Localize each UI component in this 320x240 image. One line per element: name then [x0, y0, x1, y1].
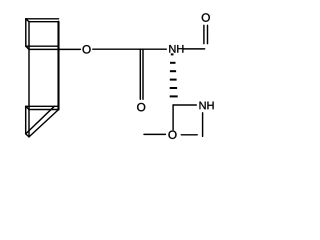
cage front-square bottom edge and bond to O	[29, 48, 80, 50]
triangle back hypotenuse	[26, 106, 55, 134]
triangle back left edge	[25, 106, 27, 134]
ring left edge	[172, 105, 174, 130]
methyl bond to ring O	[144, 133, 165, 135]
ring NH label	[200, 102, 214, 110]
cage front-left long edge	[28, 22, 30, 137]
cage corner edge top-left	[26, 19, 29, 22]
bond O to carbamate C	[93, 48, 141, 50]
ring bottom edge	[181, 134, 197, 136]
triangle front top edge	[29, 109, 59, 111]
formyl O label	[202, 13, 210, 21]
cage corner edge bottom-left	[26, 46, 29, 49]
formyl C=O double bond line 2	[203, 25, 205, 43]
bond NH to formyl C	[184, 48, 205, 50]
formyl C=O double bond line 1	[207, 25, 209, 43]
cage back-square left edge	[25, 19, 27, 46]
triangle corner edge bottom	[26, 134, 29, 137]
hashed wedge bond NH to ring C	[170, 54, 178, 96]
cage back-square top edge	[26, 18, 59, 20]
ring right edge	[202, 113, 204, 137]
ring top edge	[173, 104, 196, 106]
cage front-square top edge	[29, 21, 59, 23]
carbamate O label	[137, 103, 145, 111]
cage front-right long edge	[57, 22, 59, 110]
cage back-square bottom edge	[26, 45, 59, 47]
bond carbamate C to NH	[141, 48, 166, 50]
triangle front hypotenuse	[29, 110, 59, 137]
triangle back top edge	[26, 105, 59, 107]
ring O label	[168, 131, 176, 139]
triangle corner edge top-left	[26, 106, 29, 109]
carbamate C=O double bond line 2	[142, 49, 144, 99]
carbamate C=O double bond line 1	[139, 49, 141, 99]
carbamate NH label	[169, 45, 183, 53]
ester O label	[83, 45, 91, 53]
